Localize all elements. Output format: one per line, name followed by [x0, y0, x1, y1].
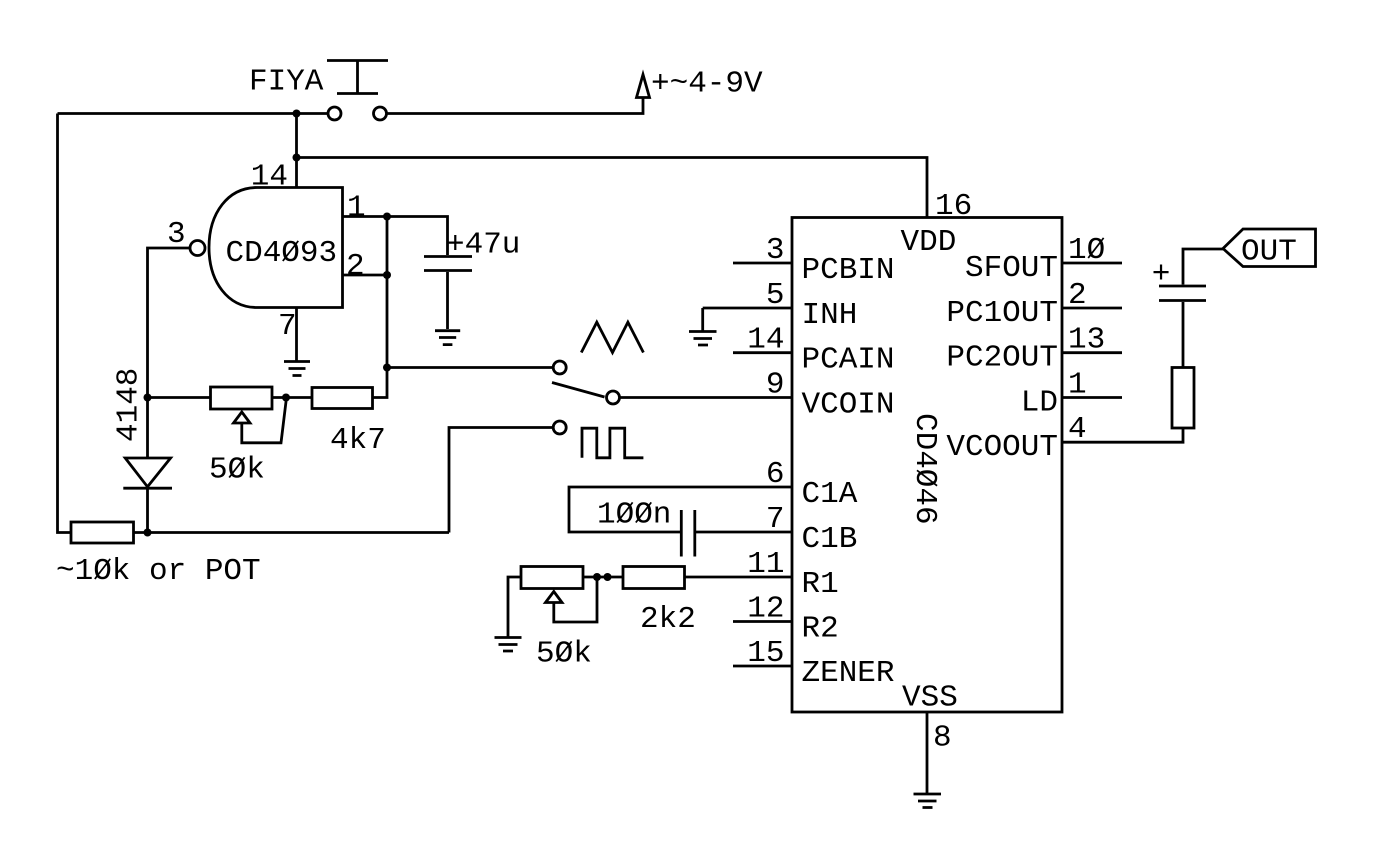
svg-text:VCOIN: VCOIN — [802, 388, 895, 423]
pin 15 stub ZENER — [733, 665, 792, 668]
svg-text:SFOUT: SFOUT — [965, 251, 1058, 286]
node pin2 junction — [383, 271, 391, 279]
wire pot to 2k2 — [583, 576, 623, 579]
pin 3 stub PCBIN — [733, 262, 792, 265]
wire 2k2 to pin11 R1 — [685, 576, 793, 579]
svg-text:VSS: VSS — [902, 681, 958, 716]
svg-text:6: 6 — [766, 457, 785, 492]
wire bottom horizontal — [134, 531, 450, 534]
svg-text:5Øk: 5Øk — [209, 453, 265, 488]
svg-text:FIYA: FIYA — [249, 65, 324, 100]
pot P1 wiper wire — [242, 398, 287, 443]
wire node to gate pin14 — [295, 114, 298, 188]
potentiometer 50k (top) — [211, 387, 273, 409]
node wiper dots — [593, 573, 601, 581]
svg-text:2k2: 2k2 — [640, 602, 696, 637]
svg-text:R1: R1 — [802, 567, 839, 602]
wire pin1 to capacitor C1 — [387, 217, 448, 256]
pin 10 stub SFOUT — [1062, 262, 1122, 265]
ground under gate pin7 — [284, 362, 310, 376]
wire node to switch throw A — [387, 366, 553, 369]
gate output bubble pin3 — [190, 241, 205, 256]
resistor output series — [1172, 368, 1194, 429]
svg-text:CD4Ø46: CD4Ø46 — [907, 413, 942, 525]
svg-text:7: 7 — [278, 309, 297, 344]
wire diode cathode — [146, 488, 149, 532]
pin 2 stub PC1OUT — [1062, 307, 1122, 310]
resistor 2k2 — [623, 567, 685, 589]
wire feedback vertical pin1-pin2-4k7 — [373, 217, 388, 398]
pin 12 stub R2 — [733, 620, 792, 623]
svg-text:1ØØn: 1ØØn — [597, 498, 671, 533]
wire R4 to C2 — [1182, 302, 1185, 368]
node pin1 junction — [383, 213, 391, 221]
wire pot to 4k7 — [271, 396, 312, 399]
node junction VDD rail — [293, 154, 301, 162]
svg-text:+~4-9V: +~4-9V — [651, 67, 763, 102]
svg-text:VDD: VDD — [901, 225, 957, 260]
svg-text:+47u: +47u — [446, 228, 520, 263]
svg-text:7: 7 — [766, 502, 785, 537]
svg-text:PCAIN: PCAIN — [802, 343, 895, 378]
pot P2 wiper arrow — [546, 592, 563, 603]
wire gate pin7 to ground — [295, 308, 298, 362]
svg-text:1: 1 — [1068, 368, 1087, 403]
wire gate pin1 — [343, 215, 388, 218]
wire diode anode — [146, 398, 149, 459]
pin 1 stub LD — [1062, 396, 1122, 399]
capacitor 47u electrolytic plates — [424, 257, 472, 271]
node feedback to switch — [383, 364, 391, 372]
svg-text:15: 15 — [747, 636, 784, 671]
wire VDD rail to CD4046 pin16 — [297, 158, 928, 218]
svg-text:5Øk: 5Øk — [536, 637, 592, 672]
svg-text:14: 14 — [251, 160, 288, 195]
svg-text:3: 3 — [766, 233, 785, 268]
svg-text:R2: R2 — [802, 612, 839, 647]
node wiper junction — [282, 394, 290, 402]
IC U2 CD4046 body — [792, 218, 1062, 713]
resistor 4k7 — [312, 388, 373, 409]
svg-text:1: 1 — [347, 191, 366, 226]
svg-text:INH: INH — [802, 298, 858, 333]
svg-text:1Ø: 1Ø — [1068, 233, 1105, 268]
diode 1N4148 — [123, 458, 172, 488]
svg-text:PC1OUT: PC1OUT — [946, 296, 1058, 331]
waveform icon square wave — [582, 428, 643, 458]
potentiometer 50k (bottom) — [521, 567, 583, 589]
svg-text:4148: 4148 — [112, 368, 147, 442]
svg-text:+: + — [1152, 257, 1171, 292]
svg-text:C1B: C1B — [802, 522, 858, 557]
capacitor 100n plates — [681, 510, 695, 557]
svg-text:ZENER: ZENER — [802, 656, 895, 691]
node junction top (button/gate) — [293, 110, 301, 118]
svg-text:12: 12 — [747, 592, 784, 627]
ground at INH — [689, 332, 717, 346]
svg-text:C1A: C1A — [802, 477, 858, 512]
pot P1 wiper arrow — [234, 412, 251, 423]
pot P2 wiper wire — [554, 577, 597, 622]
svg-text:11: 11 — [747, 547, 784, 582]
waveform icon triangle wave — [581, 322, 643, 352]
svg-text:8: 8 — [933, 721, 952, 756]
resistor ~10k — [71, 522, 134, 543]
wire button to supply — [387, 98, 644, 114]
switch SW1 — [552, 361, 620, 434]
ground under C1 — [435, 331, 460, 345]
capacitor output electrolytic plates — [1159, 286, 1206, 301]
pin 13 stub PC2OUT — [1062, 351, 1122, 354]
wire left vertical rail — [58, 114, 72, 533]
svg-text:PCBIN: PCBIN — [802, 253, 895, 288]
svg-text:~1Øk or POT: ~1Øk or POT — [56, 554, 261, 589]
pin 5 stub INH — [703, 308, 792, 331]
ground under P2 — [495, 638, 522, 652]
wire switch throw B down-left — [449, 428, 553, 533]
svg-text:4: 4 — [1068, 412, 1087, 447]
svg-text:PC2OUT: PC2OUT — [946, 341, 1058, 376]
wire top horizontal to button — [58, 112, 329, 115]
svg-text:5: 5 — [766, 278, 785, 313]
svg-text:14: 14 — [747, 323, 784, 358]
svg-text:4k7: 4k7 — [330, 423, 386, 458]
svg-text:VCOOUT: VCOOUT — [946, 430, 1058, 465]
wire C2 to OUT flag — [1183, 249, 1223, 285]
pin 8 wire VSS to ground — [926, 712, 929, 793]
pushbutton FIYA — [327, 61, 388, 121]
nand gate U1 CD4093 body — [209, 188, 343, 308]
wire node to pot 50k — [148, 396, 213, 399]
wire gate pin2 — [343, 274, 388, 277]
power symbol +~4-9V — [637, 75, 650, 98]
OUT flag — [1223, 229, 1316, 267]
pin 6 C1A loop wire — [569, 487, 792, 532]
svg-text:LD: LD — [1021, 386, 1058, 421]
wire gate pin3 output — [148, 248, 191, 398]
svg-text:2: 2 — [346, 249, 365, 284]
svg-text:OUT: OUT — [1241, 235, 1297, 270]
svg-text:2: 2 — [1068, 278, 1087, 313]
node bottom-left junction — [144, 529, 152, 537]
node diode/pot junction — [144, 394, 152, 402]
wire P2 left to ground riser — [508, 577, 521, 637]
svg-text:16: 16 — [935, 189, 972, 224]
svg-text:CD4Ø93: CD4Ø93 — [226, 236, 338, 271]
pin 4 wire VCOOUT — [1062, 428, 1183, 442]
ground under pin8 — [914, 794, 942, 808]
pin 14 stub PCAIN — [733, 351, 792, 354]
svg-text:13: 13 — [1068, 323, 1105, 358]
wire C3 to pin7 C1B — [696, 531, 792, 534]
wire switch pole to CD4046 pin9 — [620, 396, 793, 399]
svg-text:9: 9 — [766, 368, 785, 403]
wire C1 to ground — [446, 272, 449, 329]
